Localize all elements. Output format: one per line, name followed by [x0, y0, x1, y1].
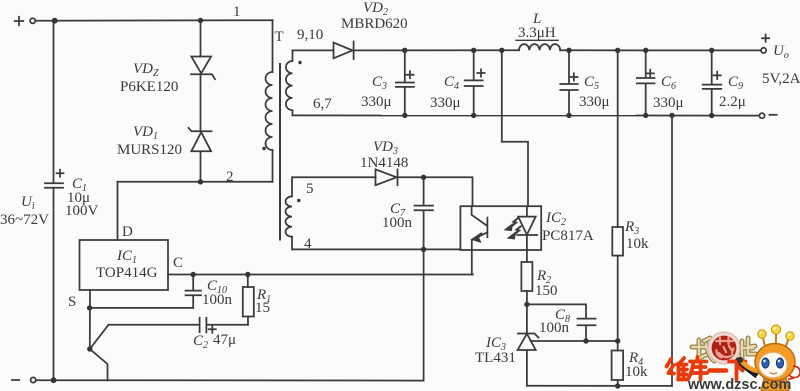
svg-text:9,10: 9,10	[297, 27, 323, 43]
output + terminal	[761, 35, 769, 53]
op-amp IC1 TOP414G box	[80, 240, 169, 290]
svg-text:T: T	[275, 29, 284, 45]
wire secondary ground rail	[527, 385, 672, 387]
wire bottom-left rail	[36, 379, 424, 381]
svg-text:MURS120: MURS120	[117, 142, 182, 158]
watermark magnifier circle	[708, 332, 740, 364]
LED of IC2	[517, 206, 537, 250]
wire +5V drop to LED	[502, 50, 528, 206]
wire primary bottom lead	[272, 150, 274, 182]
wire S pin horizontal	[90, 307, 194, 309]
wire left vertical rail	[53, 21, 55, 381]
capacitor C10	[186, 275, 202, 308]
wire output ground drop x672	[671, 115, 673, 386]
svg-text:330μ: 330μ	[361, 94, 392, 110]
svg-text:10k: 10k	[626, 236, 649, 252]
capacitor C6	[637, 50, 655, 115]
watermark mascot body	[761, 378, 789, 391]
watermark mascot antennae	[758, 325, 794, 346]
svg-text:3.3μH: 3.3μH	[518, 25, 556, 41]
wire C2-R1 lead	[207, 324, 248, 326]
wire ref line	[531, 340, 618, 342]
wire node 2	[118, 181, 273, 183]
svg-text:100n: 100n	[539, 320, 570, 336]
wire node-1 riser	[272, 20, 274, 72]
transformer polarity dots	[262, 61, 301, 202]
inductor label underline	[516, 39, 558, 41]
wire output ground rail	[293, 114, 760, 116]
wire R2-C8 node	[527, 304, 586, 318]
watermark magnifier handle	[736, 360, 758, 377]
node junction dots	[51, 18, 715, 389]
transformer bias winding 5-4	[286, 196, 293, 236]
svg-text:6,7: 6,7	[313, 96, 332, 112]
svg-text:TOP414G: TOP414G	[96, 265, 158, 281]
transformer T primary winding	[266, 72, 273, 150]
inductor L 3.3uH	[519, 44, 560, 50]
wire primary-ground riser x423	[423, 249, 425, 380]
watermark red text ku	[688, 357, 707, 380]
watermark mascot head	[755, 344, 795, 381]
svg-text:TL431: TL431	[475, 350, 516, 366]
svg-text:www.dzsc.com: www.dzsc.com	[687, 377, 791, 391]
svg-text:1N4148: 1N4148	[360, 155, 408, 171]
capacitor C4	[465, 50, 485, 115]
diode VD2 MBRD620	[334, 42, 354, 60]
transformer secondary winding 9,10-6,7	[286, 50, 293, 115]
svg-text:MBRD620: MBRD620	[341, 16, 408, 32]
svg-text:15: 15	[255, 300, 270, 316]
svg-text:36~72V: 36~72V	[0, 212, 49, 228]
wire pin4 lead	[292, 237, 460, 250]
svg-text:1: 1	[233, 4, 241, 20]
wire R3 branch riser	[617, 50, 619, 227]
optocoupler IC2 PC817A box	[460, 206, 541, 250]
watermark xin glyph in circle	[716, 338, 734, 358]
input + terminal	[15, 17, 36, 25]
svg-text:100n: 100n	[382, 215, 413, 231]
svg-text:4: 4	[304, 236, 312, 252]
wire D pin riser	[117, 182, 119, 240]
svg-text:100V: 100V	[65, 203, 99, 219]
resistor R4	[612, 341, 624, 386]
svg-text:D: D	[122, 224, 133, 240]
watermark mascot red wire	[788, 366, 800, 380]
svg-text:P6KE120: P6KE120	[120, 79, 178, 95]
svg-text:100n: 100n	[202, 292, 233, 308]
svg-text:2: 2	[226, 169, 234, 185]
wire top-left rail	[35, 19, 272, 22]
svg-text:330μ: 330μ	[653, 95, 684, 111]
watermark mascot arm and glove	[737, 357, 757, 371]
svg-text:330μ: 330μ	[430, 95, 461, 111]
capacitor C3	[396, 50, 414, 115]
svg-text:47μ: 47μ	[213, 332, 236, 348]
capacitor C7	[415, 177, 434, 249]
shunt regulator IC3 TL431	[518, 304, 539, 385]
output - terminal	[759, 113, 776, 118]
resistor R1	[243, 275, 254, 325]
svg-text:2.2μ: 2.2μ	[719, 94, 746, 110]
phototransistor of IC2	[472, 206, 488, 274]
capacitor C2	[200, 318, 216, 333]
svg-text:5: 5	[306, 181, 314, 197]
watermark tan text pian	[742, 338, 755, 359]
wire C pin	[168, 274, 473, 276]
svg-text:150: 150	[535, 283, 558, 299]
wire C2 left lead	[109, 324, 200, 326]
wire VD1 bottom lead	[200, 151, 202, 182]
light arrows of IC2	[505, 219, 521, 239]
capacitor C9	[703, 50, 722, 115]
wire VDz-VD1	[200, 74, 202, 131]
input - terminal	[12, 377, 36, 382]
wire output top rail mid	[354, 49, 519, 51]
watermark red text wei	[667, 358, 688, 380]
svg-text:PC817A: PC817A	[542, 228, 594, 244]
svg-text:5V,2A: 5V,2A	[762, 71, 800, 87]
wire S pin riser	[89, 290, 91, 349]
capacitor C5	[560, 50, 577, 115]
diode VD1 MURS120	[189, 128, 212, 152]
wire VD chain top lead	[200, 20, 202, 56]
wire S crow-foot diagonals	[90, 325, 109, 381]
wire output top rail right	[560, 49, 761, 51]
wire bias winding top lead	[292, 177, 376, 196]
wire output top rail left	[293, 49, 334, 51]
capacitor C1	[45, 170, 64, 188]
watermark red text xia	[729, 362, 746, 380]
diode VDz P6KE120	[191, 57, 215, 80]
svg-text:C: C	[173, 255, 183, 271]
capacitor C8	[578, 319, 596, 341]
diode VD3 1N4148	[376, 169, 398, 185]
watermark red text yi	[710, 368, 727, 373]
svg-text:S: S	[68, 294, 76, 310]
svg-text:330μ: 330μ	[579, 94, 610, 110]
resistor R3	[612, 227, 623, 341]
watermark tan text zhao	[692, 338, 714, 361]
wire VD3 to collector riser	[398, 177, 473, 206]
resistor R2	[521, 250, 532, 304]
transformer core	[279, 64, 281, 240]
svg-text:10k: 10k	[625, 364, 648, 380]
